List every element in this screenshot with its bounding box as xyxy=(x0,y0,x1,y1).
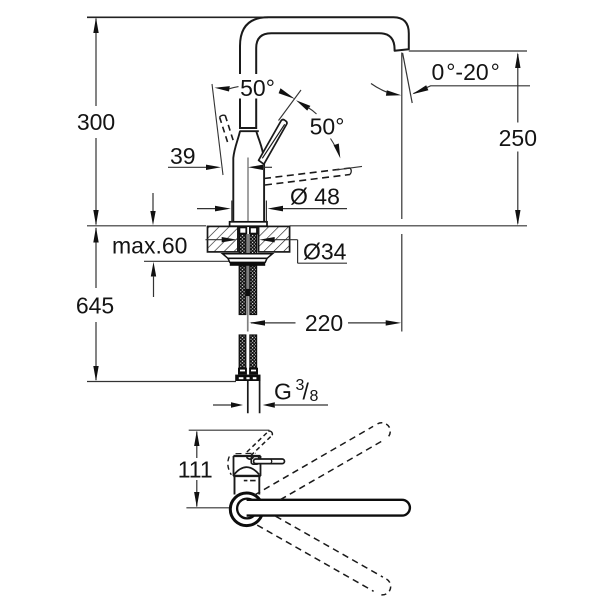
hose end fittings xyxy=(238,368,247,375)
dim 300 arrows xyxy=(93,18,98,226)
shank braided strip right (in hole) xyxy=(250,227,257,254)
lever raised dashed position (left) xyxy=(220,115,234,142)
spout tube circle inner xyxy=(237,499,257,519)
braided hose left lower run xyxy=(239,335,246,368)
body circle outer xyxy=(230,493,263,526)
dim 111 xyxy=(196,432,198,507)
dim G3/8 xyxy=(213,404,232,406)
svg-text:220: 220 xyxy=(305,310,343,336)
dim max.60 top arrow xyxy=(152,193,154,212)
top reference line (spout top level) xyxy=(87,16,268,18)
svg-text:111: 111 xyxy=(178,457,213,483)
svg-text:250: 250 xyxy=(499,125,537,151)
lever axis extension line (left) xyxy=(212,84,223,175)
base plate xyxy=(230,222,267,226)
svg-text:0 °-20 °: 0 °-20 ° xyxy=(432,59,500,85)
dim diameter 34 xyxy=(206,239,223,241)
dim diameter 48 xyxy=(197,208,215,210)
braided hose right lower run xyxy=(250,335,257,368)
svg-text:G: G xyxy=(274,379,292,405)
dashed arc left of body xyxy=(228,457,232,475)
spout pipe outline xyxy=(240,17,409,129)
G3/8 stub xyxy=(248,381,260,413)
dim 300 line xyxy=(95,19,97,225)
counter reference line right xyxy=(290,225,527,227)
shank braided strip left (in hole) xyxy=(239,227,246,254)
svg-text:max.60: max.60 xyxy=(112,233,187,259)
hose end reference line xyxy=(87,381,236,383)
svg-text:39: 39 xyxy=(170,143,196,169)
svg-text:645: 645 xyxy=(76,293,114,319)
body upper housing xyxy=(233,455,260,457)
dim 645 line xyxy=(95,228,97,380)
top reference line (lever tip level) xyxy=(189,429,270,431)
dim 645 arrows xyxy=(93,227,98,381)
faucet body outline xyxy=(233,131,264,222)
angle 50 first arc + arrows xyxy=(215,86,230,91)
lever base xyxy=(251,457,259,465)
locknut xyxy=(228,258,267,262)
0-20 leader xyxy=(414,86,531,94)
braided hose left (below nut) xyxy=(239,266,246,315)
swivel dashed bar upper xyxy=(254,426,381,499)
angle 50 deg second: bowtie arrows xyxy=(296,100,310,110)
spout axis reference line xyxy=(186,507,229,509)
hose connector bar xyxy=(235,375,260,381)
220 right reference line / water stream lower xyxy=(401,234,403,332)
flange line xyxy=(233,475,261,477)
svg-text:8: 8 xyxy=(310,388,319,405)
lever (down position, top view) xyxy=(254,459,285,464)
washer xyxy=(223,254,273,259)
svg-text:50°: 50° xyxy=(240,75,275,101)
stream tilt line 20 deg xyxy=(403,53,413,103)
inner grey pipe xyxy=(247,234,250,289)
counter hatched section left xyxy=(208,226,238,252)
spout bar xyxy=(247,500,410,516)
body centerline xyxy=(247,158,249,226)
raised lever dashed (bottom figure) xyxy=(247,431,272,455)
lower body xyxy=(235,477,260,495)
faucet body joint lines xyxy=(240,128,259,131)
lever axis extension (solid lever) xyxy=(279,90,302,121)
angle 0-20 arc and arrow xyxy=(371,84,395,95)
solid lever xyxy=(259,120,287,165)
dim 250 xyxy=(517,54,519,224)
hose connector squares xyxy=(239,227,246,233)
water stream line xyxy=(401,53,403,220)
braided hose right (below nut) xyxy=(250,266,257,315)
svg-text:Ø 48: Ø 48 xyxy=(290,184,340,210)
angle 50 second arc xyxy=(308,108,317,115)
dome arc xyxy=(234,467,259,475)
counter reference line left xyxy=(87,225,206,227)
extension line under arc2 arrow xyxy=(336,166,362,170)
dim max.60 lower reference line xyxy=(144,260,230,262)
svg-text:/: / xyxy=(303,379,310,405)
svg-text:50°: 50° xyxy=(310,114,345,140)
svg-text:Ø34: Ø34 xyxy=(303,239,347,265)
spout tip reference line xyxy=(409,50,527,52)
threaded shank: hole edges xyxy=(238,226,259,252)
lever socket notch xyxy=(247,457,254,459)
dim 220 xyxy=(251,322,387,324)
swivel dashed bar lower xyxy=(257,516,383,591)
dim max.60 bottom arrow xyxy=(151,262,156,277)
lever horizontal dashed position xyxy=(264,168,350,185)
counter hatched section right xyxy=(259,226,290,252)
svg-text:300: 300 xyxy=(77,109,115,135)
